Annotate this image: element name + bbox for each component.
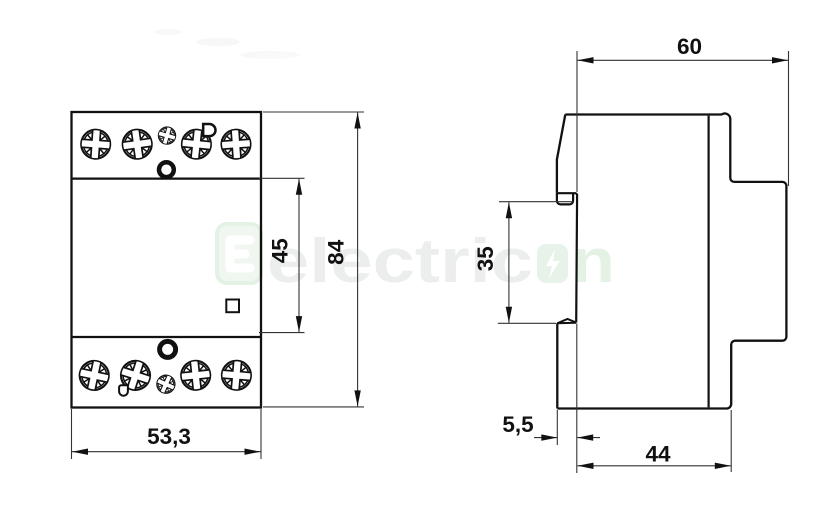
top terminal screw 3	[180, 128, 212, 160]
top small screw	[156, 125, 177, 146]
side view left profile upper	[557, 115, 565, 193]
dimension 44	[578, 410, 732, 472]
bottom terminal screw 1	[77, 358, 111, 392]
top terminal screw 1	[80, 129, 111, 160]
side view left profile lower	[556, 323, 558, 408]
top ring opening	[159, 162, 174, 177]
side view body outline	[557, 113, 786, 408]
top D flag marking	[203, 124, 215, 136]
watermark logo square	[217, 224, 261, 283]
front view body outline	[72, 112, 262, 408]
dimension 5,5	[534, 324, 600, 474]
side view internal edge line	[707, 116, 709, 408]
svg-text:60: 60	[677, 34, 702, 59]
bottom ring opening	[160, 341, 176, 357]
dimension 35	[498, 202, 573, 324]
bottom terminal screw 3	[180, 359, 212, 391]
watermark electricon	[217, 224, 615, 296]
side view front face	[575, 194, 578, 323]
faint smudges top (artifact)	[154, 29, 300, 59]
svg-text:35: 35	[473, 246, 498, 271]
svg-text:44: 44	[645, 442, 671, 467]
bottom flag marking	[119, 385, 128, 395]
bottom terminal screw 4	[221, 360, 252, 391]
svg-text:5,5: 5,5	[502, 412, 533, 437]
svg-text:45: 45	[268, 238, 293, 263]
front view lower separator line	[72, 336, 262, 338]
dimension 84	[263, 112, 364, 407]
front view upper separator line	[72, 178, 262, 180]
top terminal screw 2	[121, 128, 154, 161]
svg-text:53,3: 53,3	[147, 424, 191, 449]
side view DIN claw notch	[557, 192, 573, 204]
side view lower claw tip	[557, 319, 576, 323]
small hollow square marking	[226, 300, 239, 313]
dimension 45	[259, 178, 305, 332]
watermark o with bolt	[537, 244, 568, 283]
dimension 60	[577, 51, 789, 192]
dimension 53,3	[72, 409, 262, 459]
bottom terminal screw 2	[117, 357, 154, 394]
svg-text:84: 84	[324, 239, 349, 265]
top terminal screw 4	[221, 129, 252, 160]
bottom small screw	[154, 372, 178, 396]
